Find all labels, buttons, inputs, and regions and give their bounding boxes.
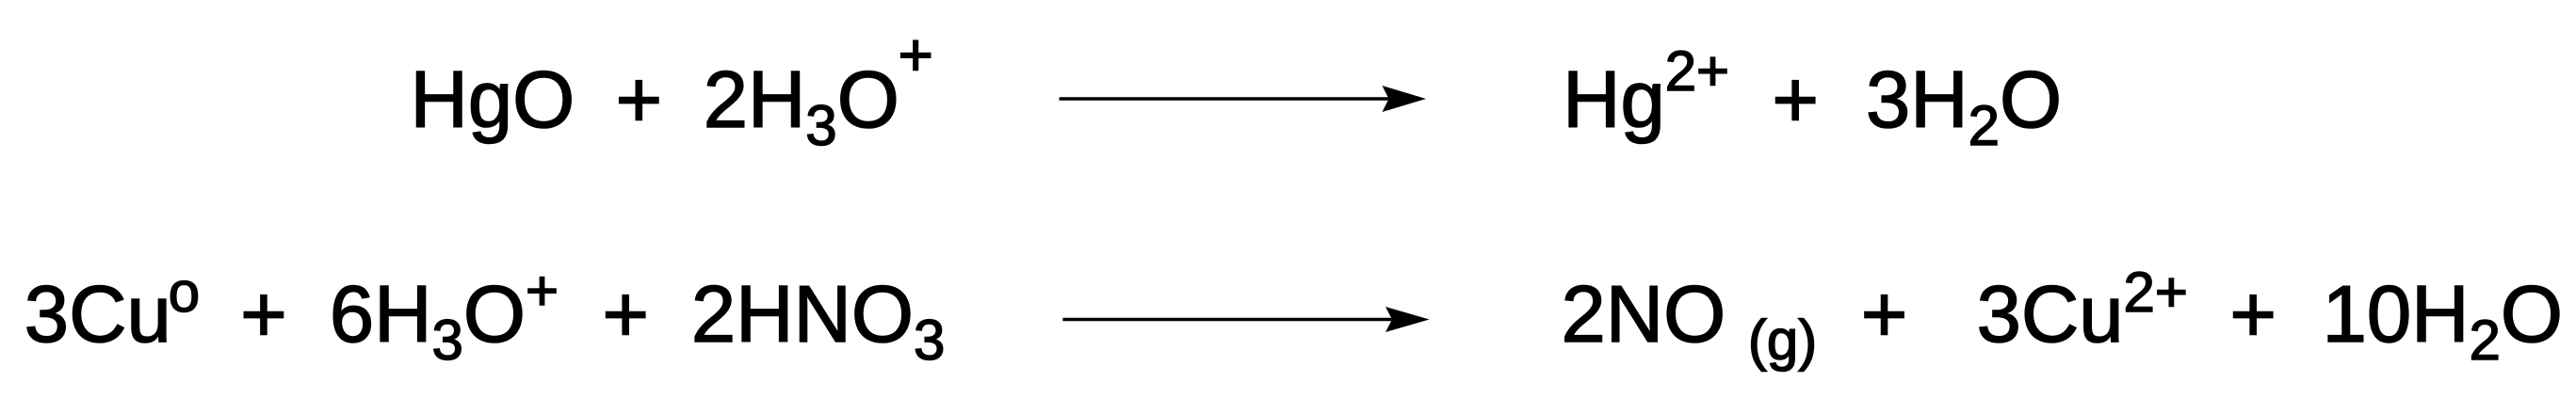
svg-text:O: O	[463, 270, 526, 359]
svg-text:2NO: 2NO	[1562, 270, 1726, 359]
equation 2 reaction arrow shaft	[1062, 318, 1421, 322]
svg-text:2HNO: 2HNO	[691, 270, 914, 359]
svg-text:+: +	[602, 270, 649, 359]
svg-text:O: O	[2501, 270, 2563, 359]
svg-text:2H: 2H	[704, 56, 806, 145]
svg-text:+: +	[899, 21, 933, 88]
svg-text:3: 3	[432, 309, 463, 372]
svg-text:2+: 2+	[2124, 261, 2188, 324]
svg-text:3Cu: 3Cu	[1977, 270, 2124, 359]
svg-text:+: +	[616, 56, 663, 145]
svg-text:HgO: HgO	[411, 56, 575, 145]
svg-text:3: 3	[914, 309, 945, 372]
svg-text:2: 2	[2470, 309, 2501, 372]
svg-text:3: 3	[805, 94, 836, 157]
svg-text:+: +	[1861, 270, 1908, 359]
svg-text:+: +	[526, 260, 559, 323]
svg-text:O: O	[837, 56, 899, 145]
svg-text:3Cu: 3Cu	[24, 270, 171, 359]
svg-text:2+: 2+	[1665, 40, 1729, 103]
svg-text:10H: 10H	[2323, 270, 2470, 359]
svg-text:o: o	[169, 261, 200, 324]
equation 2 reaction arrowhead	[1385, 307, 1430, 332]
equation 1 reaction arrowhead	[1383, 86, 1427, 112]
svg-text:+: +	[240, 270, 287, 359]
svg-text:3H: 3H	[1866, 56, 1968, 145]
svg-text:O: O	[2000, 56, 2062, 145]
svg-text:+: +	[1772, 56, 1819, 145]
svg-text:+: +	[2229, 270, 2276, 359]
svg-text:(g): (g)	[1748, 309, 1817, 372]
equation 1 reaction arrow shaft	[1060, 97, 1418, 101]
svg-text:Hg: Hg	[1563, 56, 1665, 145]
svg-text:2: 2	[1968, 94, 2000, 157]
svg-text:6H: 6H	[330, 270, 432, 359]
